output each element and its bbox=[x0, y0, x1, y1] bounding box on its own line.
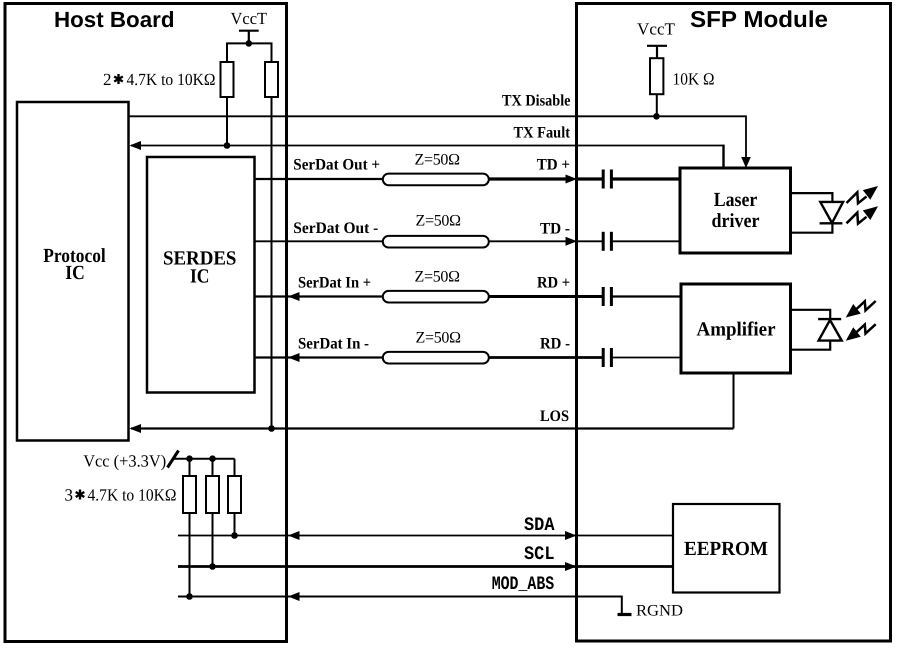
resistor R3 10K pull-up (SFP) bbox=[650, 58, 663, 94]
LED D1 (laser diode) bbox=[791, 193, 843, 233]
node junction R2/LOS bbox=[268, 425, 275, 432]
svg-text:SerDat Out -: SerDat Out - bbox=[293, 220, 378, 237]
wire R6 to SDA bbox=[234, 513, 236, 536]
node junction R4/MOD_ABS bbox=[186, 593, 193, 600]
Amplifier U4 bbox=[681, 284, 791, 373]
svg-text:SerDat In +: SerDat In + bbox=[298, 275, 371, 292]
VccT power symbol (host side) bbox=[231, 9, 268, 43]
light incoming arrow 1 bbox=[846, 301, 876, 318]
svg-text:Amplifier: Amplifier bbox=[697, 318, 776, 340]
wire Vcc rail bbox=[173, 458, 235, 460]
arrow RD+ into host board bbox=[288, 292, 300, 301]
resistor R5 (pull-up SCL) bbox=[206, 476, 219, 513]
VccT power symbol (SFP side) bbox=[637, 20, 676, 59]
svg-text:IC: IC bbox=[65, 262, 85, 284]
wire stubs Vcc to resistors bbox=[190, 459, 235, 476]
svg-text:SFP Module: SFP Module bbox=[690, 6, 828, 32]
resistor R6 (pull-up SDA) bbox=[228, 476, 241, 513]
wire R1 to TX Fault net bbox=[226, 97, 228, 146]
net RD+ / SerDat In + (y=296.5) bbox=[255, 295, 682, 297]
capacitor C1 (TD+) bbox=[603, 170, 611, 189]
Host Board outer box bbox=[5, 4, 287, 642]
resistor R2 (pull-up 4.7K-10K right) bbox=[265, 62, 278, 97]
arrow RD- into host board bbox=[288, 353, 300, 362]
svg-text:Host Board: Host Board bbox=[54, 7, 175, 32]
wire R4 to MOD_ABS bbox=[189, 513, 191, 597]
wire R5 to SCL bbox=[212, 513, 214, 567]
svg-text:4.7K to 10KΩ: 4.7K to 10KΩ bbox=[127, 70, 216, 89]
transmission line Z=50 (TD+) bbox=[383, 174, 489, 186]
wire Amplifier to LOS bbox=[733, 373, 735, 429]
photodiode D2 bbox=[791, 310, 842, 350]
arrow LOS into Protocol IC bbox=[130, 424, 142, 433]
node junction Vcc/R4 bbox=[186, 455, 193, 462]
svg-text:4.7K to 10KΩ: 4.7K to 10KΩ bbox=[88, 486, 177, 505]
svg-text:RD -: RD - bbox=[540, 336, 570, 353]
node junction R1/TX Fault bbox=[224, 142, 231, 149]
svg-text:VccT: VccT bbox=[637, 20, 676, 39]
svg-text:RGND: RGND bbox=[636, 603, 683, 620]
arrow MOD_ABS into host board bbox=[288, 592, 300, 601]
arrow TD+ into SFP bbox=[566, 175, 578, 184]
net RD- / SerDat In - (y=357.5) bbox=[255, 356, 682, 358]
svg-text:SCL: SCL bbox=[524, 543, 555, 565]
node junction VccT host bbox=[246, 40, 253, 47]
value label 3*4.7K to 10K ohm bbox=[65, 486, 177, 505]
transmission line Z=50 (TD-) bbox=[383, 236, 489, 248]
transmission line Z=50 (RD-) bbox=[383, 352, 489, 364]
SERDES IC U2 bbox=[147, 157, 255, 393]
svg-text:SerDat In -: SerDat In - bbox=[298, 336, 369, 353]
svg-text:Z=50Ω: Z=50Ω bbox=[415, 152, 461, 169]
svg-text:LOS: LOS bbox=[540, 408, 569, 425]
Protocol IC U1 bbox=[17, 102, 129, 441]
light incoming arrow 2 bbox=[846, 324, 876, 341]
resistor R4 (pull-up MOD_ABS) bbox=[183, 476, 196, 513]
node junction Vcc/R5 bbox=[209, 455, 216, 462]
value label 2*4.7K to 10K ohm bbox=[103, 70, 216, 89]
net MOD_ABS wire bbox=[178, 597, 622, 614]
arrow SCL into SFP bbox=[565, 562, 577, 571]
light emission arrow 1 bbox=[847, 186, 879, 203]
wire 10K to TX Disable bbox=[656, 94, 658, 116]
light emission arrow 2 bbox=[847, 206, 879, 223]
svg-text:SDA: SDA bbox=[524, 514, 555, 536]
arrow TX Disable into Laser driver bbox=[741, 157, 751, 168]
node junction R5/SCL bbox=[209, 563, 216, 570]
SFP Module outer box bbox=[577, 4, 891, 642]
resistor R1 (pull-up 4.7K-10K left) bbox=[221, 62, 234, 97]
arrow SDA into SFP bbox=[565, 531, 577, 540]
EEPROM U5 bbox=[673, 504, 780, 593]
net TX Disable wire bbox=[129, 116, 747, 158]
svg-text:driver: driver bbox=[712, 210, 760, 232]
svg-text:Z=50Ω: Z=50Ω bbox=[415, 269, 461, 286]
svg-text:TX Fault: TX Fault bbox=[514, 124, 571, 141]
net SCL wire bbox=[178, 565, 673, 568]
svg-text:TD +: TD + bbox=[537, 157, 570, 174]
svg-text:TX Disable: TX Disable bbox=[502, 92, 571, 109]
arrow SDA into host board bbox=[288, 531, 300, 540]
svg-text:Vcc (+3.3V): Vcc (+3.3V) bbox=[83, 452, 166, 471]
Laser driver U3 bbox=[680, 168, 791, 253]
svg-text:RD +: RD + bbox=[537, 275, 570, 292]
svg-text:2: 2 bbox=[103, 70, 112, 89]
transmission line Z=50 (RD+) bbox=[383, 291, 489, 303]
node junction TX Disable / 10K bbox=[653, 113, 660, 120]
net TX Fault wire bbox=[131, 145, 724, 147]
net TD- / SerDat Out - (y=241.3) bbox=[255, 240, 681, 242]
svg-text:IC: IC bbox=[190, 266, 210, 288]
wire VccT rail to both pull-up resistors bbox=[227, 43, 272, 62]
wire R2 to LOS net bbox=[271, 97, 273, 429]
net LOS wire bbox=[131, 427, 734, 429]
svg-text:SerDat Out +: SerDat Out + bbox=[293, 157, 380, 174]
svg-text:Laser: Laser bbox=[714, 189, 758, 211]
net TD+ / SerDat Out + (y=179) bbox=[255, 178, 681, 180]
capacitor C2 (TD-) bbox=[603, 232, 611, 251]
power slash symbol bbox=[168, 451, 179, 468]
svg-text:TD -: TD - bbox=[540, 221, 570, 238]
svg-text:10K Ω: 10K Ω bbox=[673, 69, 715, 88]
svg-text:EEPROM: EEPROM bbox=[684, 538, 768, 560]
svg-text:Z=50Ω: Z=50Ω bbox=[416, 330, 462, 347]
capacitor C4 (RD-) bbox=[603, 348, 611, 367]
arrow TX Fault into Protocol IC bbox=[130, 141, 142, 150]
arrow TD- into SFP bbox=[566, 237, 578, 246]
ground RGND symbol bbox=[618, 613, 632, 616]
svg-text:MOD_ABS: MOD_ABS bbox=[492, 573, 555, 595]
capacitor C3 (RD+) bbox=[603, 287, 611, 306]
svg-text:VccT: VccT bbox=[231, 9, 268, 28]
svg-text:3: 3 bbox=[65, 486, 74, 505]
svg-text:Z=50Ω: Z=50Ω bbox=[416, 213, 462, 230]
net SDA wire bbox=[178, 535, 673, 537]
node junction R6/SDA bbox=[231, 532, 238, 539]
